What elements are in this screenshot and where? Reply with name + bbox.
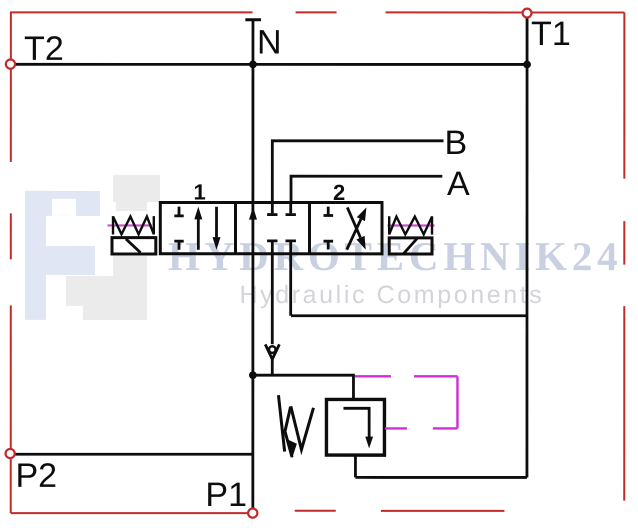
svg-text:B: B <box>445 124 468 162</box>
valve section dividers <box>236 202 310 253</box>
middle section B blocked bar bottom <box>267 239 277 242</box>
port circle T1 <box>523 9 532 18</box>
middle section P arrow head <box>249 207 257 220</box>
node N top tick <box>245 18 261 21</box>
svg-text:1: 1 <box>194 179 206 204</box>
spring right <box>389 216 432 234</box>
middle section A blocked bar bottom <box>286 239 296 242</box>
svg-text:2: 2 <box>333 180 345 205</box>
left section up arrow <box>197 216 200 249</box>
right section cross arrow down <box>347 207 360 237</box>
svg-text:P1: P1 <box>205 476 247 514</box>
right section cross arrow up <box>347 219 361 249</box>
right section blocked port bottom <box>324 241 334 249</box>
check valve ball <box>269 346 276 353</box>
wire relief feed horizontal <box>253 375 354 399</box>
wire valve-B port down to check valve <box>271 241 274 344</box>
throttle right V <box>291 406 314 449</box>
magenta line left spring <box>108 224 153 226</box>
left section down arrow <box>215 207 218 240</box>
check valve seat <box>265 344 279 359</box>
left section blocked port bottom <box>174 241 183 250</box>
wire P2 horizontal <box>15 453 253 456</box>
svg-text:T1: T1 <box>531 15 571 53</box>
relief valve internal path <box>343 408 369 437</box>
magenta pilot dashed box <box>355 376 458 428</box>
left section blocked port top <box>174 207 183 216</box>
port circle T2 <box>6 60 15 69</box>
port circle P1 <box>248 508 257 517</box>
right section blocked port top <box>324 207 334 216</box>
wire T1 vertical <box>526 18 529 478</box>
watermark logo notch <box>52 199 76 216</box>
watermark logo blue F-shape <box>25 191 100 320</box>
junction dot at T1 <box>523 61 531 69</box>
wire B <box>272 141 443 203</box>
wire relief outlet to T1 <box>355 455 527 477</box>
solenoid left <box>112 238 156 254</box>
middle section stub B top <box>271 202 274 213</box>
wire main horizontal T2-T1 <box>15 63 527 66</box>
throttle middle chevron <box>285 407 292 457</box>
junction dot at N <box>249 60 257 68</box>
wire N vertical <box>251 20 254 509</box>
spring left <box>113 216 154 234</box>
middle section A blocked bar top <box>286 213 296 216</box>
magenta line right spring <box>388 224 435 226</box>
svg-text:N: N <box>257 23 282 61</box>
solenoid right <box>389 238 432 254</box>
valve body box <box>160 202 382 253</box>
svg-text:Hydraulic Components: Hydraulic Components <box>239 281 544 309</box>
svg-text:T2: T2 <box>24 30 64 68</box>
throttle left line <box>278 395 284 451</box>
wire A <box>291 176 442 202</box>
middle section stub A top <box>289 202 292 213</box>
port circle P2 <box>6 449 15 458</box>
relief valve box <box>326 399 384 455</box>
junction dot P1 line <box>249 371 257 379</box>
watermark logo grey J-shape <box>66 175 160 320</box>
wire valve-A port down and right to T1 <box>291 241 527 316</box>
check valve line below <box>271 359 274 375</box>
svg-text:A: A <box>447 165 470 203</box>
svg-text:P2: P2 <box>15 457 57 495</box>
throttle arrow head <box>287 439 297 458</box>
middle section B blocked bar top <box>267 213 277 216</box>
